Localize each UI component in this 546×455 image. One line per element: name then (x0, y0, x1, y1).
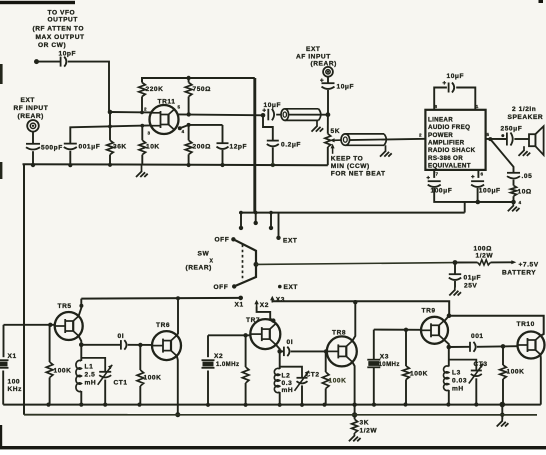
node TR5 source dot (79, 343, 84, 348)
wire switch contact stub x255 (255, 213, 257, 223)
crystal X1 label (8, 353, 17, 360)
wire U1 pin1 stub (456, 88, 475, 110)
wire L2 to rail (279, 392, 281, 405)
node 100K TR6 rail dot (137, 403, 141, 407)
svg-text:0.3: 0.3 (282, 380, 293, 387)
node TR7 drain dot (271, 318, 275, 322)
node label RF ATTEN line1 (33, 26, 85, 33)
note KEEP TO line3 (331, 171, 386, 178)
node label RF ATTEN line2 (36, 34, 85, 41)
svg-text:220K: 220K (146, 86, 164, 93)
svg-text:TR10: TR10 (517, 321, 535, 328)
node label EXT AF INPUT line3 (311, 61, 337, 68)
wire 100K TR5 leads (49, 325, 51, 362)
node TR6 source rail2 dot (175, 412, 180, 417)
node L1 rail dot (79, 403, 83, 407)
node TR5 gate 100K dot (48, 323, 52, 327)
wire bottom rail1 (3, 404, 541, 406)
wire J1 to C 500pF (32, 132, 34, 144)
trimmer capacitor CT1 (98, 365, 113, 385)
node L3 rail dot (446, 402, 450, 406)
transistor TR11 (150, 105, 179, 134)
svg-text:L2: L2 (282, 373, 291, 380)
wire .01 to TR6 gate (128, 344, 153, 346)
wire 100K TR10 top (502, 346, 504, 365)
wire TR6 drain (177, 298, 178, 335)
polarity mark 100uF left (427, 176, 430, 179)
svg-text:2 1/2in: 2 1/2in (512, 106, 536, 113)
pin 8 of U1 (435, 104, 438, 109)
svg-text:2.5: 2.5 (85, 372, 96, 379)
svg-text:X1: X1 (235, 302, 244, 309)
wire TR11 source line (180, 125, 223, 128)
resistor R 200ohm (185, 140, 192, 154)
border top-right mark (539, 0, 544, 3)
resistor R 100K TR8 (322, 372, 329, 389)
svg-text:TR5: TR5 (58, 303, 72, 310)
wire TR7 gate res bottom (245, 383, 247, 405)
wire TR5 source (79, 336, 82, 345)
inductor L1 label line2 (85, 372, 96, 379)
wire 100K TR9 top (405, 330, 407, 366)
battery label line2 (502, 270, 536, 277)
node switch stub top dot x271 (269, 211, 273, 215)
wire L3 to rail (448, 390, 450, 405)
wire 100K TR8 bottom (325, 389, 327, 405)
wire C 500pF to ground rail (32, 151, 34, 165)
pin 6 of U1 (481, 172, 484, 177)
node junction TR11 drain coupling (261, 113, 266, 118)
border bottom edge (0, 446, 546, 449)
crystal X1 freq line2 (8, 386, 23, 393)
svg-text:POWER: POWER (428, 132, 453, 139)
capacitor C .001 TR9 (470, 342, 476, 352)
svg-text:10pF: 10pF (59, 51, 77, 58)
node junction gate2 36K (108, 125, 112, 129)
capacitor C .01uF 25V (449, 274, 461, 280)
wire U1 output to 250uF (486, 138, 507, 140)
svg-text:mH: mH (282, 387, 294, 394)
node TR6 gate dot (138, 343, 142, 347)
polarity mark 10uF coupling (262, 108, 266, 112)
node junction 36K rail (108, 163, 112, 167)
resistor R 36K label (113, 144, 127, 151)
svg-text:1: 1 (476, 104, 479, 109)
capacitor C .001uF label (79, 144, 101, 151)
node 100K TR5 rail dot (46, 403, 50, 407)
wire TR11 drain line (174, 106, 178, 109)
wire TR9 drain (444, 316, 449, 322)
node X2 rail dot (206, 403, 210, 407)
svg-text:1.0MHz: 1.0MHz (216, 361, 239, 368)
crystal X1 (0, 360, 9, 368)
inductor L3 (443, 366, 448, 391)
resistor R 100K TR9 label (410, 371, 428, 378)
wire TR9 source to 001 cap (449, 346, 470, 348)
wire 10K leads (141, 126, 143, 141)
svg-text:(RF ATTEN TO: (RF ATTEN TO (33, 26, 85, 33)
capacitor C .01 TR7 label (287, 339, 294, 346)
wire X1 supply line (81, 297, 240, 300)
svg-text:X1: X1 (8, 353, 17, 360)
switch OFF lower label (214, 284, 229, 291)
svg-text:OFF: OFF (214, 284, 229, 291)
node junction 500pF rail (31, 163, 35, 167)
capacitor C .05 label (522, 173, 533, 180)
crystal X3 label (380, 354, 389, 361)
wire ground stem TR10 section (501, 405, 503, 420)
node TR7 gate resistor dot (243, 333, 247, 337)
svg-text:100K: 100K (410, 371, 428, 378)
node switch stub top dot x241 (239, 211, 243, 215)
node TR5 drain dot (79, 304, 83, 308)
svg-text:mH: mH (85, 380, 97, 387)
svg-text:CT2: CT2 (306, 372, 320, 379)
capacitor C 500pF label (41, 145, 63, 152)
pin 1 of U1 (476, 104, 479, 109)
wire CT3 to rail (475, 378, 477, 404)
svg-text:2: 2 (419, 133, 422, 138)
resistor R 10ohm label (518, 189, 532, 196)
transistor TR9 label (422, 308, 436, 315)
svg-text:EXT: EXT (21, 97, 35, 104)
wire 0.2uF to rail (272, 147, 274, 165)
wire switch contact stub x271 (270, 213, 272, 228)
svg-text:200Ω: 200Ω (193, 144, 212, 151)
svg-text:TR11: TR11 (158, 99, 176, 106)
wire C .001uF top to TR11 gate2 line (70, 125, 151, 143)
resistor R 220K (139, 83, 146, 97)
wire 200ohm bottom to rail (188, 154, 190, 165)
svg-text:01μF: 01μF (464, 275, 482, 282)
wire attenuator node to TR11 gate1 (110, 111, 151, 113)
svg-text:X3: X3 (276, 297, 285, 304)
node switch EXT lower dot (278, 285, 282, 289)
wire VFO output line right to attenuator node (68, 62, 109, 112)
pin 3 of TR11 (148, 131, 151, 136)
svg-text:100K: 100K (329, 378, 347, 385)
svg-text:X2: X2 (260, 302, 269, 309)
wire coupling node to 0.2uF (263, 115, 273, 140)
capacitor C 10uF coupling (268, 109, 274, 121)
node junction 0.2uF rail (271, 163, 275, 167)
node switch EXT contact dot (276, 236, 280, 240)
resistor R 10K (139, 140, 146, 154)
node TR9 drain dot (447, 313, 452, 318)
svg-text:CT1: CT1 (114, 380, 128, 387)
capacitor C 100uF left label (431, 188, 453, 195)
inductor L2 label line1 (282, 373, 291, 380)
transistor TR7 label (246, 317, 260, 324)
capacitor C .01 TR7 (284, 347, 290, 357)
wire TR5 source to .01 cap (81, 344, 121, 346)
transistor TR8 label (332, 330, 346, 337)
node junction .001uF rail (68, 163, 72, 167)
node 100K TR9 rail dot (403, 402, 407, 406)
node junction drain 750 (187, 112, 191, 116)
wire TR5 drain to X1 line (79, 299, 82, 317)
switch SW sub label (210, 259, 214, 265)
svg-text:X3: X3 (380, 354, 389, 361)
wire L1 CT1 top link (81, 358, 105, 372)
ground 3K resistor (349, 433, 361, 441)
svg-text:OUTPUT: OUTPUT (48, 17, 78, 24)
svg-text:(REAR): (REAR) (311, 61, 337, 68)
wire TR11 drain to coupling node (178, 113, 263, 116)
svg-text:+7.5V: +7.5V (519, 262, 539, 269)
potentiometer 5K wiper arrow (330, 138, 343, 142)
svg-text:36K: 36K (113, 144, 127, 151)
inductor L3 label line3 (452, 386, 464, 393)
node rail2 crossing dot (500, 413, 504, 417)
wire .05 to 10ohm (513, 180, 515, 186)
svg-text:EXT: EXT (306, 46, 320, 53)
svg-text:100K: 100K (507, 369, 525, 376)
svg-text:(REAR): (REAR) (186, 265, 212, 272)
node TR8 source rail2 dot (352, 412, 357, 417)
ground speaker (519, 146, 531, 156)
capacitor C 10uF gain (449, 83, 455, 93)
svg-text:10μF: 10μF (447, 73, 465, 80)
wire 750ohm to drain line (188, 97, 190, 115)
svg-text:100μF: 100μF (479, 188, 501, 195)
wire X2 crystal branch (207, 335, 209, 357)
capacitor C .01 TR5 label (118, 333, 125, 340)
ground battery cap (449, 288, 461, 296)
wire TR5 gate down to X1 crystal (3, 325, 5, 357)
node switch contact dot x255 (254, 221, 258, 225)
node TR11 pin4 dot (178, 126, 182, 130)
wire VFO output line left (37, 61, 61, 63)
op-amp U1 text line6 (428, 155, 463, 162)
pin 4 of TR11 (182, 129, 185, 134)
svg-text:0I: 0I (118, 333, 125, 340)
svg-text:LINEAR: LINEAR (428, 116, 453, 123)
wire coupling cap to coax1 center (276, 114, 328, 116)
polarity mark 10uF AF (320, 78, 324, 82)
wire X3 crystal branch (373, 330, 375, 360)
svg-text:3K: 3K (360, 420, 370, 427)
wire TR9 TR10 supply line (449, 316, 544, 336)
capacitor C 100uF left (428, 181, 441, 187)
switch gang dashed link (242, 245, 244, 282)
speaker LS1 (529, 126, 544, 155)
wire X3 supply line (272, 301, 449, 315)
svg-text:750Ω: 750Ω (193, 86, 212, 93)
svg-text:CT3: CT3 (474, 361, 488, 368)
ground amp output ground (508, 202, 520, 211)
wire TR7 source to .01 cap (280, 350, 284, 352)
ground coax1 shield (312, 121, 324, 132)
potentiometer R 5K label (331, 128, 341, 135)
inductor L2 (274, 368, 279, 392)
trimmer CT1 label (114, 380, 128, 387)
resistor R 100K TR8 label (329, 378, 347, 385)
pin 5 of U1 (487, 132, 490, 137)
resistor R 100K TR5 (46, 362, 53, 378)
node switch common dot (254, 262, 259, 267)
potentiometer R 5K (325, 134, 331, 147)
node CT3 rail dot (474, 402, 478, 406)
svg-text:0.03: 0.03 (452, 378, 467, 385)
resistor R 100ohm (478, 260, 491, 265)
pin 2 of TR11 (144, 107, 147, 112)
transistor TR9 (421, 317, 448, 344)
node label TO VFO OUTPUT line1 (48, 10, 76, 17)
svg-text:KEEP TO: KEEP TO (331, 156, 364, 163)
op-amp U1 text line2 (428, 124, 470, 131)
svg-text:8: 8 (435, 104, 438, 109)
wire 001 to TR10 gate (477, 345, 518, 348)
svg-text:OFF: OFF (215, 237, 230, 244)
svg-text:EXT: EXT (283, 238, 297, 245)
svg-text:AMPLIFIER: AMPLIFIER (428, 139, 465, 146)
svg-text:10μF: 10μF (264, 102, 282, 109)
polarity mark 250uF (501, 134, 504, 137)
ground main rail ground (136, 165, 148, 177)
trimmer capacitor CT3 (469, 364, 484, 384)
switch SW label (198, 251, 210, 258)
ground bottom right section (497, 420, 509, 427)
svg-text:5: 5 (178, 105, 181, 110)
capacitor C .001 TR9 label (471, 333, 484, 340)
note KEEP TO line2 (331, 163, 370, 170)
resistor R 3K label line2 (360, 428, 378, 435)
svg-text:mH: mH (452, 386, 464, 393)
wire .01 to TR8 gate (291, 350, 327, 352)
capacitor C 10uF AF input (322, 83, 335, 89)
wire main ground rail (23, 164, 328, 165)
node X1 line end dot (238, 296, 243, 301)
node junction top rail 750 (186, 76, 190, 80)
wire 5K bottom to rail (327, 147, 329, 165)
svg-text:100Ω: 100Ω (474, 246, 493, 253)
svg-text:EQUIVALENT: EQUIVALENT (428, 163, 471, 170)
node label EXT RF INPUT line1 (21, 97, 35, 104)
node TR10 source big dot (500, 402, 506, 408)
wire 100uF right to common (477, 188, 479, 202)
resistor R 100K TR10 (500, 365, 507, 379)
svg-text:L3: L3 (452, 370, 461, 377)
node junction output diag (488, 137, 492, 141)
net label X1 (235, 302, 244, 309)
svg-text:L1: L1 (85, 364, 94, 371)
border left mark1 (0, 64, 3, 84)
svg-text:4: 4 (182, 129, 185, 134)
wire U1 pin7 stub (433, 170, 435, 178)
border left mark2 (0, 162, 2, 179)
capacitor C 0.2uF (267, 141, 279, 147)
wire CT1 to rail (104, 380, 106, 405)
inductor L1 (76, 360, 81, 391)
switch SW rear label (186, 265, 212, 272)
wire TR9 gate line (374, 329, 421, 331)
wire L2 CT2 top link (280, 367, 302, 378)
annotation arrow keep-to-min (331, 144, 335, 154)
transistor TR11 label (158, 99, 176, 106)
node TR8 source rail1 dot (352, 403, 356, 407)
inductor L3 label line1 (452, 370, 461, 377)
resistor R 3K label line1 (360, 420, 370, 427)
node TR9 source dot (447, 345, 452, 350)
wire U1 pin8 stub (434, 88, 447, 110)
resistor R 36K (107, 140, 114, 154)
wire switch bus (239, 212, 465, 214)
wire .01uF to ground (454, 281, 456, 288)
crystal X2 freq (216, 361, 239, 368)
wire L1 to rail (80, 391, 82, 405)
trimmer CT2 label (306, 372, 320, 379)
wire U1 pin6 stub (477, 170, 479, 178)
wire 5K wiper to amp pin2 (342, 139, 425, 140)
svg-text:OR CW): OR CW) (38, 42, 66, 49)
wire 36K bottom to rail (109, 155, 111, 165)
node junction 200ohm rail (187, 163, 191, 167)
resistor R 100K TR9 (403, 366, 410, 380)
svg-text:500pF: 500pF (41, 145, 63, 152)
wire 100K TR10 bottom (502, 379, 504, 405)
switch OFF upper label (215, 237, 230, 244)
wire supply vertical top-rail to switch bus (253, 78, 256, 213)
node label EXT AF INPUT line1 (306, 46, 320, 53)
op-amp U1 text line3 (428, 132, 453, 139)
svg-text:FOR NET BEAT: FOR NET BEAT (331, 171, 386, 178)
op-amp U1 amplifier box (425, 110, 485, 170)
svg-text:TO VFO: TO VFO (48, 10, 76, 17)
ground coax2 shield (380, 145, 392, 156)
resistor R 100K TR5 label (54, 368, 72, 375)
net arrow X2 (254, 300, 258, 307)
wire 10uF AF to junction (327, 90, 329, 115)
crystal X1 freq line1 (8, 379, 21, 386)
transistor TR7 (250, 319, 280, 349)
wire 100K TR6 top (139, 345, 141, 370)
svg-text:3: 3 (148, 131, 151, 136)
resistor R 220K label (146, 86, 164, 93)
wire rail left corner down (23, 164, 25, 415)
polarity mark 100uF right (471, 175, 474, 178)
wire 100ohm to battery arrow (491, 261, 513, 263)
svg-text:AF INPUT: AF INPUT (296, 54, 331, 61)
resistor R 10K label (146, 144, 160, 151)
wire bottom rail2 (24, 414, 537, 416)
svg-text:MIN (CCW): MIN (CCW) (331, 163, 370, 170)
node CT1 rail dot (103, 403, 107, 407)
capacitor C .001uF (64, 144, 77, 150)
connector J2 EXT AF INPUT (323, 67, 333, 77)
resistor R 100K TR6 (137, 370, 144, 386)
node junction 12pF rail (220, 163, 224, 167)
capacitor C .01uF label line2 (464, 283, 477, 290)
shielded cable W2 (341, 134, 386, 145)
crystal X2 label (214, 353, 223, 360)
wire switch EXT stub (278, 213, 280, 238)
capacitor C 10pF label (59, 51, 77, 58)
trimmer capacitor CT2 (295, 371, 310, 391)
wire 10ohm to ground node (513, 196, 515, 202)
resistor R 100K TR6 label (144, 375, 162, 382)
node label EXT AF INPUT line2 (296, 54, 331, 61)
wire TR10 source return (540, 355, 542, 405)
svg-text:5K: 5K (331, 128, 341, 135)
node TR8 gate dot (324, 349, 328, 353)
svg-text:7: 7 (436, 172, 439, 177)
wire 100uF left to common (434, 188, 513, 202)
capacitor C .01uF label line1 (464, 275, 482, 282)
wire TR11 top rail (142, 78, 255, 83)
wire X2 feed to TR7 drain (257, 307, 275, 323)
svg-text:KHz: KHz (8, 386, 23, 393)
